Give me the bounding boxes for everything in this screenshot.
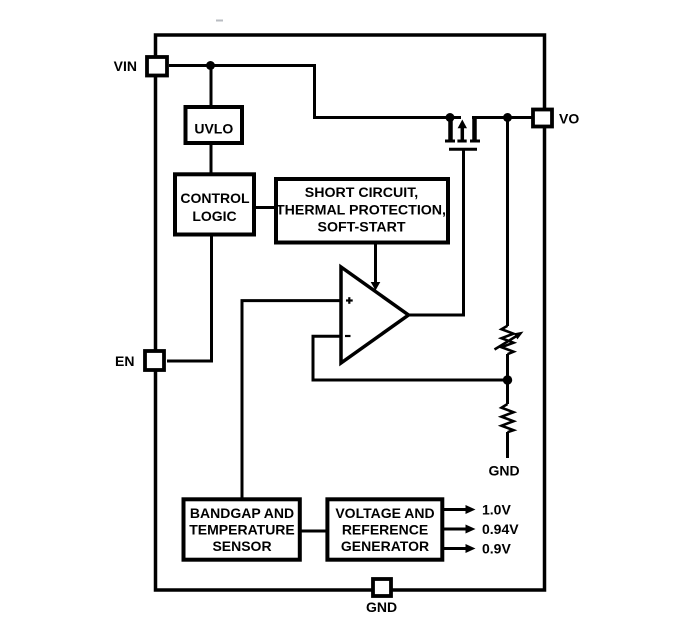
svg-text:BANDGAP AND: BANDGAP AND: [190, 505, 294, 521]
svg-text:VO: VO: [559, 111, 579, 127]
svg-text:EN: EN: [115, 353, 134, 369]
svg-text:GENERATOR: GENERATOR: [341, 538, 429, 554]
svg-text:0.94V: 0.94V: [482, 521, 519, 537]
svg-text:VOLTAGE AND: VOLTAGE AND: [335, 505, 434, 521]
svg-text:UVLO: UVLO: [194, 121, 233, 137]
svg-text:1.0V: 1.0V: [482, 502, 511, 518]
svg-text:TEMPERATURE: TEMPERATURE: [189, 521, 295, 537]
svg-text:0.9V: 0.9V: [482, 541, 511, 557]
svg-text:CONTROL: CONTROL: [180, 190, 250, 206]
svg-text:SOFT-START: SOFT-START: [317, 220, 405, 236]
svg-text:REFERENCE: REFERENCE: [342, 521, 428, 537]
svg-text:LOGIC: LOGIC: [192, 208, 236, 224]
svg-text:SHORT CIRCUIT,: SHORT CIRCUIT,: [305, 185, 419, 201]
svg-text:SENSOR: SENSOR: [212, 538, 271, 554]
svg-text:THERMAL PROTECTION,: THERMAL PROTECTION,: [276, 203, 446, 219]
svg-text:GND: GND: [366, 599, 397, 615]
svg-text:GND: GND: [488, 463, 519, 479]
svg-text:VIN: VIN: [114, 58, 137, 74]
